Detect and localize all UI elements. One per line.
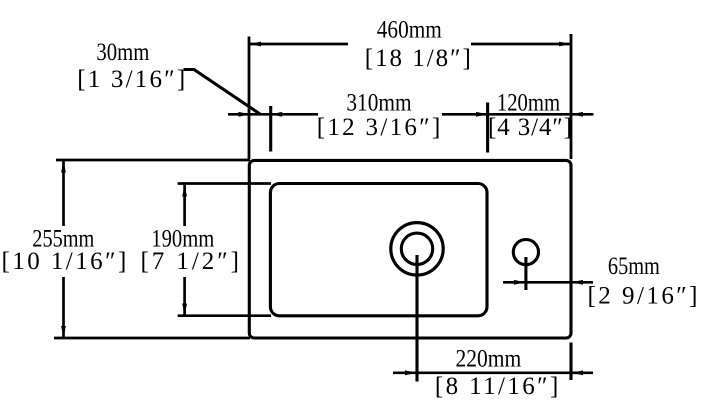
svg-text:220mm: 220mm xyxy=(456,346,522,373)
drain outer circle xyxy=(391,223,443,275)
dimension line 460mm (y=44) xyxy=(249,43,348,46)
tap hole stem (extension line down) xyxy=(524,257,527,290)
extension line 460/120 right (x=571) xyxy=(570,34,573,159)
arrow at right edge pointing left xyxy=(572,280,584,285)
arrow 460 left xyxy=(250,42,262,47)
extension line 30mm (x=270.7) xyxy=(269,106,272,152)
arrow 190 top xyxy=(182,185,187,197)
svg-text:[1 3/16″]: [1 3/16″] xyxy=(77,66,185,93)
extension line 255 top xyxy=(56,159,250,162)
arrow at 270.7 pointing left xyxy=(271,112,283,117)
extension line 310/120 (x=487.6) xyxy=(486,103,489,153)
arrow at right ext pointing left xyxy=(572,370,584,375)
dimension line 65mm (y=282.3) xyxy=(503,281,593,284)
arrow 255 top xyxy=(61,161,66,173)
drain inner circle xyxy=(401,233,432,264)
svg-text:[4 3/4″]: [4 3/4″] xyxy=(488,114,572,141)
extension line 255 bottom xyxy=(54,337,250,340)
svg-text:[8 11/16″]: [8 11/16″] xyxy=(435,373,558,400)
extension line 460 left (x=249) xyxy=(248,37,251,160)
arrow at 249 pointing right xyxy=(239,112,251,117)
svg-text:[18 1/8″]: [18 1/8″] xyxy=(365,45,471,72)
svg-text:30mm: 30mm xyxy=(96,39,149,66)
svg-text:120mm: 120mm xyxy=(497,90,561,117)
arrow 255 bottom xyxy=(61,326,66,338)
leader line for 30mm xyxy=(184,70,261,115)
svg-text:[12 3/16″]: [12 3/16″] xyxy=(317,114,441,141)
svg-text:460mm: 460mm xyxy=(377,17,442,44)
sink outer rim rectangle xyxy=(249,160,571,338)
basin inner rectangle xyxy=(270,184,487,316)
svg-text:310mm: 310mm xyxy=(346,90,412,117)
arrow at tap stem pointing right xyxy=(514,280,526,285)
arrow at 487.6 pointing right xyxy=(476,112,488,117)
arrow 190 bottom xyxy=(182,304,187,316)
arrow at 571 pointing left xyxy=(572,112,584,117)
svg-text:[2 9/16″]: [2 9/16″] xyxy=(588,282,698,309)
svg-text:65mm: 65mm xyxy=(608,253,660,280)
tap hole circle xyxy=(513,240,538,265)
arrow 460 right xyxy=(559,42,571,47)
dimension line 190mm (x=184.6) xyxy=(183,185,186,227)
dimension line 30/310/120 (y=114.3) xyxy=(228,113,318,116)
dimension line 220mm (y=372.5) xyxy=(393,371,593,374)
dimension line 255mm (x=63.5) xyxy=(62,161,65,227)
drain center stem (extension line down) xyxy=(415,255,418,382)
extension line 220 right (x=571 below rect) xyxy=(569,343,572,381)
extension line 190 bottom xyxy=(178,314,271,317)
arrow at drain stem pointing right xyxy=(405,370,417,375)
extension line 190 top xyxy=(178,182,271,185)
